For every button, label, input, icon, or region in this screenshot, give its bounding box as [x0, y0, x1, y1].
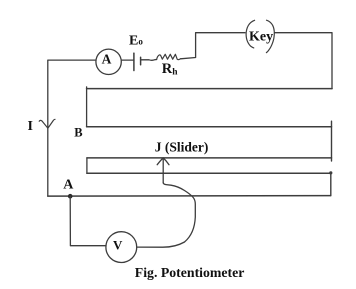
potentiometer wire row 1 — [87, 88, 332, 90]
key K (plug key parentheses) — [246, 20, 274, 52]
wire: battery to rheostat — [141, 59, 157, 62]
svg-text:B: B — [74, 125, 82, 139]
potentiometer wire row 5 — [48, 195, 331, 198]
potentiometer wire row 2 — [87, 126, 332, 128]
wire: left vertical branch (ammeter lead down to row 5) — [48, 60, 96, 196]
svg-text:I: I — [28, 119, 33, 134]
svg-text:Rh: Rh — [162, 61, 178, 77]
ammeter A1 — [96, 49, 121, 74]
wire: left connector row3-row4 — [86, 158, 88, 173]
wire: node A down to voltmeter left lead — [70, 196, 106, 246]
wire: right connector row4-row5 — [330, 172, 332, 195]
svg-text:A: A — [63, 178, 74, 193]
svg-text:Fig. Potentiometer: Fig. Potentiometer — [135, 265, 245, 280]
svg-text:J (Slider): J (Slider) — [155, 140, 209, 155]
potentiometer wire row 4 — [87, 172, 331, 174]
node A junction dot — [68, 194, 73, 199]
svg-text:A: A — [102, 51, 112, 66]
wire: key to top-right corner down to row 1 — [275, 33, 332, 89]
voltmeter V1 — [106, 232, 137, 263]
potentiometer wire row 3 — [87, 157, 332, 159]
current arrow on left wire — [39, 119, 55, 128]
wire: ammeter to battery — [122, 59, 134, 61]
rheostat R_h — [157, 54, 181, 59]
svg-text:V: V — [113, 237, 123, 252]
wire: left connector row1-row2 — [86, 87, 88, 127]
junction dot at row4 right corner — [329, 171, 332, 174]
svg-text:Eo: Eo — [129, 34, 143, 49]
wire: slider to voltmeter right lead — [137, 183, 196, 247]
wire: rheostat up to top rail, left segment of top rail — [181, 33, 246, 59]
battery E_o — [134, 53, 141, 70]
svg-text:Key: Key — [249, 30, 273, 45]
slider J arrow — [157, 158, 169, 183]
wire: right connector row2-row3 — [331, 121, 333, 161]
